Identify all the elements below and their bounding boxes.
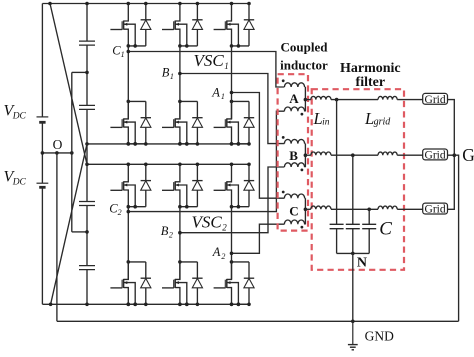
svg-text:B: B: [289, 148, 298, 163]
grid box 3: [423, 203, 448, 214]
svg-text:DC: DC: [12, 178, 27, 188]
svg-text:B: B: [161, 224, 169, 238]
svg-text:B: B: [162, 66, 170, 80]
wire phase B mid: [331, 154, 378, 156]
wire capacitor join: [337, 252, 370, 254]
polarity dot lower B: [301, 169, 304, 172]
svg-text:A: A: [289, 91, 299, 106]
grid box 1: [423, 93, 448, 104]
node B1 wire: [180, 74, 285, 144]
bottom dc bus: [42, 303, 249, 305]
harmonic filter dashed box: [312, 89, 404, 270]
gnd rail wire: [57, 320, 459, 322]
switch cell Q5 (VSC1 top leg 3): [227, 4, 232, 22]
diagonal wire top bus to vsc2 bus: [50, 4, 87, 165]
wire leg 3 vsc2: [231, 207, 233, 280]
svg-text:G: G: [462, 145, 474, 165]
wire leg 2 vsc1: [179, 46, 181, 119]
coupled inductor dashed box: [278, 74, 308, 230]
svg-text:2: 2: [221, 252, 225, 261]
capacitor C dc4: [79, 266, 95, 270]
switch cell Q4 (VSC1 bottom leg 2): [175, 101, 180, 119]
capacitor C dc3: [79, 202, 95, 206]
switch cell Q12 (VSC2 bottom leg 3): [227, 262, 232, 280]
wire leg 1 vsc2: [127, 207, 129, 280]
svg-text:GND: GND: [365, 328, 394, 343]
polarity dot upper C: [282, 191, 285, 194]
wire phase C mid: [331, 208, 378, 210]
battery VDC lower: [37, 182, 49, 184]
dc-link capacitor string wire: [86, 4, 88, 305]
inductor Lgrid phase C: [378, 206, 397, 209]
stub cap mid lower: [72, 231, 87, 233]
inductor Lin phase C: [311, 206, 331, 209]
svg-text:filter: filter: [356, 75, 386, 90]
node C1 wire: [128, 52, 284, 88]
svg-text:A: A: [212, 245, 221, 259]
polarity dot upper A: [282, 79, 285, 82]
wire phase A output: [305, 99, 310, 101]
svg-text:O: O: [53, 137, 63, 152]
svg-text:C: C: [379, 218, 392, 239]
svg-text:Grid: Grid: [425, 150, 446, 162]
svg-text:1: 1: [121, 50, 125, 59]
switch cell Q10 (VSC2 bottom leg 2): [175, 262, 180, 280]
node A2 wire: [232, 224, 285, 253]
capacitor C filter phase A: [336, 100, 338, 225]
svg-text:2: 2: [222, 222, 227, 232]
capacitor C dc1: [79, 41, 95, 45]
svg-text:1: 1: [224, 61, 229, 71]
svg-text:Grid: Grid: [425, 94, 446, 106]
svg-text:Coupled: Coupled: [281, 39, 329, 54]
wire G to gnd rail: [454, 155, 458, 321]
diagonal wire vsc1 bus to bottom bus: [51, 144, 87, 304]
svg-text:in: in: [322, 118, 330, 128]
inductor Lin phase A: [311, 96, 331, 99]
polarity dot lower C: [301, 226, 304, 229]
switch cell Q7 (VSC2 top leg 1): [124, 164, 129, 182]
inductor Lin phase B: [311, 152, 331, 155]
switch cell Q9 (VSC2 top leg 2): [175, 164, 180, 182]
stub cap mid upper: [72, 71, 87, 73]
wire phase C output: [305, 208, 310, 210]
svg-text:Harmonic: Harmonic: [340, 61, 401, 76]
vsc1 lower bus: [87, 143, 249, 145]
switch cell Q8 (VSC2 bottom leg 1): [124, 262, 129, 280]
wire centre tap A: [304, 87, 306, 111]
node A1 wire: [232, 93, 285, 199]
wire phase B to grid: [397, 154, 423, 156]
coupled inductor C: upper winding: [284, 194, 304, 198]
node O line: [42, 152, 71, 154]
polarity dot upper B: [282, 136, 285, 139]
svg-text:VSC: VSC: [194, 51, 225, 70]
wire phase A to grid: [397, 99, 423, 101]
left dc bus wire: [41, 4, 43, 305]
wire centre tap B: [304, 144, 306, 167]
coupled inductor B: upper winding: [284, 139, 304, 143]
node dots on cap string: [85, 2, 89, 6]
vsc2 upper bus: [87, 163, 249, 165]
wire leg 2 vsc2: [179, 207, 181, 280]
svg-text:DC: DC: [12, 112, 27, 122]
svg-text:2: 2: [118, 208, 122, 217]
wire leg 3 vsc1: [231, 46, 233, 119]
node C2 wire: [128, 111, 284, 211]
svg-text:1: 1: [170, 72, 174, 81]
svg-text:1: 1: [221, 92, 225, 101]
top dc bus: [42, 3, 249, 5]
capacitor C dc2: [79, 105, 95, 109]
inductor Lgrid phase B: [378, 152, 397, 155]
battery VDC upper: [37, 116, 49, 118]
svg-text:inductor: inductor: [280, 57, 328, 72]
wire phase A mid: [331, 99, 378, 101]
switch cell Q2 (VSC1 bottom leg 1): [124, 101, 129, 119]
wire centre tap C: [304, 198, 306, 224]
wire O to gnd rail: [56, 153, 58, 321]
node B2 wire: [180, 167, 285, 233]
svg-text:grid: grid: [374, 117, 392, 128]
svg-text:VSC: VSC: [192, 212, 223, 231]
wire cap midpoints: [71, 72, 73, 232]
svg-text:2: 2: [169, 231, 173, 240]
coupled inductor A: lower winding: [284, 107, 304, 111]
switch cell Q3 (VSC1 top leg 2): [175, 4, 180, 22]
wire phase C to grid: [397, 208, 423, 210]
switch cell Q11 (VSC2 top leg 3): [227, 164, 232, 182]
grid box 2: [423, 149, 448, 160]
coupled inductor B: lower winding: [284, 163, 304, 167]
svg-text:N: N: [357, 256, 367, 271]
wire leg 1 vsc1: [127, 46, 129, 119]
svg-text:Grid: Grid: [425, 204, 446, 216]
ground symbol: [352, 321, 354, 344]
svg-text:C: C: [289, 203, 298, 218]
coupled inductor A: upper winding: [284, 83, 304, 87]
node N wire: [352, 253, 354, 321]
capacitor C filter phase B: [352, 155, 354, 224]
capacitor C filter phase C: [368, 209, 370, 224]
svg-text:A: A: [211, 86, 220, 100]
coupled inductor C: lower winding: [284, 220, 304, 224]
switch cell Q1 (VSC1 top leg 1): [124, 4, 129, 22]
wire phase B output: [305, 154, 310, 156]
switch cell Q6 (VSC1 bottom leg 3): [227, 101, 232, 119]
inductor Lgrid phase A: [378, 96, 397, 99]
wire grid right bus: [448, 100, 455, 210]
polarity dot lower A: [301, 113, 304, 116]
